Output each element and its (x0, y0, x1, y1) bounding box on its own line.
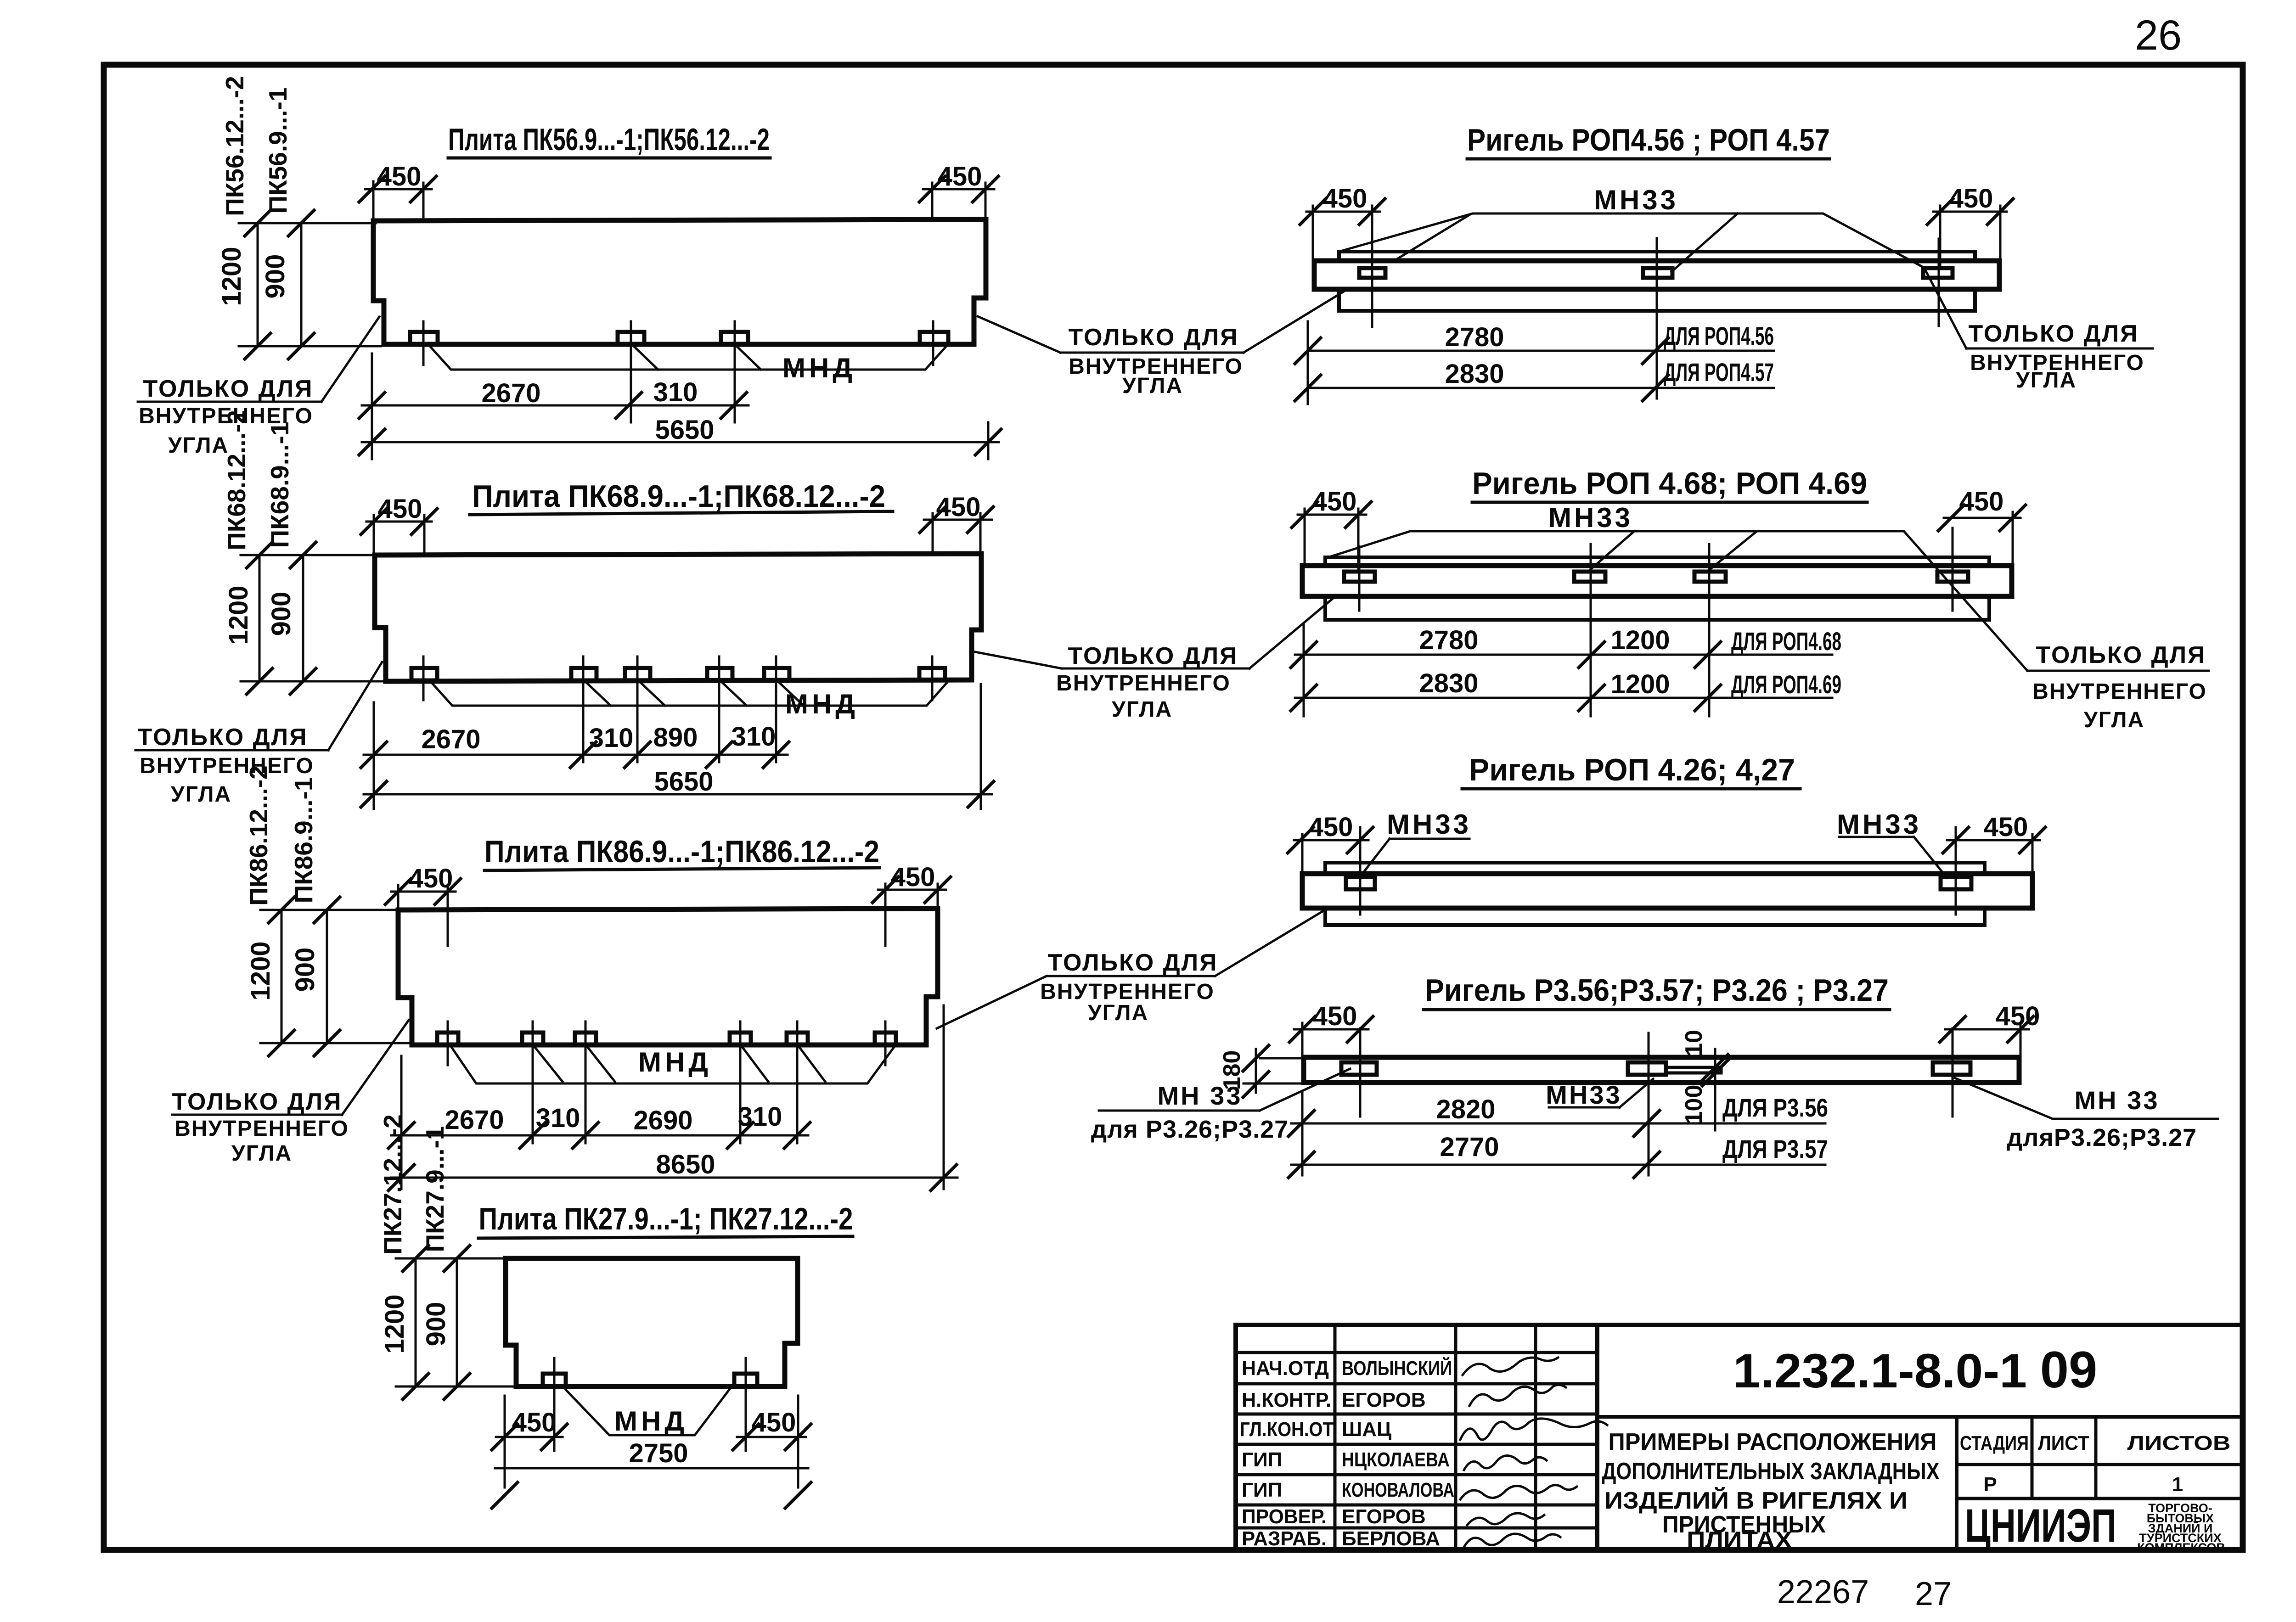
beam 2 МН33 plate 1 (1344, 572, 1375, 582)
svg-text:900: 900 (266, 592, 296, 636)
svg-text:ДЛЯ РОП4.56: ДЛЯ РОП4.56 (1664, 321, 1774, 350)
beam 2 МН33 label (1548, 502, 1633, 533)
title beam 3 underline (1462, 787, 1800, 791)
title plate 3 underline (484, 868, 879, 870)
beam 1 left 450 dim (1306, 211, 1380, 213)
plate 3 МНД embed rect 6 (875, 1033, 896, 1045)
plate 1 profile (373, 219, 986, 344)
designation 1.232.1-8.0-1 09 (1733, 1341, 2097, 1398)
plate 1 МНД leader (430, 347, 946, 370)
title plate 2 (472, 479, 885, 514)
plate 1 left 450 dim (365, 188, 432, 191)
title block name labels (1342, 1356, 1454, 1550)
title block vertical lines (1334, 1325, 1337, 1550)
svg-text:5650: 5650 (655, 415, 714, 445)
plate 2 right 450 dim (924, 519, 992, 521)
svg-text:1200: 1200 (224, 585, 253, 645)
svg-text:ГИП: ГИП (1242, 1448, 1282, 1471)
plate 4 axis lines (553, 1358, 556, 1451)
plate 1 rotated labels (217, 76, 292, 306)
svg-text:Ригель РОП4.56 ; РОП 4.57: Ригель РОП4.56 ; РОП 4.57 (1467, 123, 1830, 157)
svg-text:450: 450 (1949, 184, 1993, 213)
svg-text:МН33: МН33 (1548, 502, 1633, 533)
plate 3 МНД embed rect 4 (730, 1033, 751, 1045)
svg-text:УГЛА: УГЛА (171, 782, 231, 807)
beam 2 МН33 plate 4 (1937, 572, 1968, 582)
beam 4 left 450 dim (1294, 1028, 1368, 1031)
svg-text:МН33: МН33 (1387, 809, 1471, 840)
plate 3 МНД embed rect 1 (437, 1033, 458, 1045)
title block outer (1236, 1325, 2243, 1550)
title plate 4 (479, 1201, 853, 1236)
beam 2 dim row 2780/1200 (1295, 654, 1832, 656)
plate 2 МНД embed rect 4 (707, 668, 732, 680)
svg-text:Плита ПК86.9...-1;ПК86.12...-2: Плита ПК86.9...-1;ПК86.12...-2 (484, 834, 879, 869)
title beam 1 underline (1467, 157, 1829, 161)
svg-text:450: 450 (1312, 487, 1357, 516)
central note 2 Только для внутреннего угла (1056, 643, 1238, 722)
svg-text:ДОПОЛНИТЕЛЬНЫХ ЗАКЛАДНЫХ: ДОПОЛНИТЕЛЬНЫХ ЗАКЛАДНЫХ (1602, 1458, 1940, 1485)
svg-text:ГИП: ГИП (1242, 1479, 1282, 1501)
plate 1 dim row 2670/310 (362, 404, 748, 407)
svg-text:10: 10 (1681, 1030, 1707, 1056)
beam 2 main bar (1302, 566, 2012, 596)
svg-text:Ригель РОП 4.26; 4,27: Ригель РОП 4.26; 4,27 (1469, 752, 1795, 787)
svg-text:310: 310 (732, 722, 776, 752)
beam 1 dim row 2780 (1308, 350, 1774, 352)
svg-text:ЛИСТОВ: ЛИСТОВ (2127, 1432, 2231, 1454)
plate 3 dim row 8650 (391, 1177, 957, 1179)
leader to beam 1 left plate (1244, 215, 1469, 353)
title plate 1 (448, 122, 770, 157)
beam 4 МН33 middle label (1546, 1080, 1621, 1109)
title beam 1 (1467, 123, 1830, 157)
svg-text:ЕГОРОВ: ЕГОРОВ (1342, 1389, 1426, 1411)
svg-text:ЛИСТ: ЛИСТ (2038, 1432, 2089, 1454)
svg-text:ПК86.9...-1: ПК86.9...-1 (289, 777, 318, 904)
leader to plate 3 right notch (937, 976, 1047, 1028)
СТАДИЯ ЛИСТ ЛИСТОВ table (1960, 1432, 2231, 1496)
svg-text:КОМПЛЕКСОВ: КОМПЛЕКСОВ (2137, 1541, 2225, 1555)
beam 1 axis lines (1371, 239, 1373, 327)
beam 4 axis lines (1359, 1028, 1362, 1117)
beam 3 МН33 plate left (1346, 877, 1375, 889)
beam 3 МН33 plate right (1941, 877, 1971, 889)
svg-text:НАЧ.ОТД: НАЧ.ОТД (1242, 1357, 1329, 1380)
plate 4 profile (506, 1258, 798, 1386)
title beam 2 underline (1472, 501, 1867, 504)
plate 3 left note Только для внутреннего угла (172, 1089, 349, 1166)
beam 2 axis lines (1358, 546, 1361, 611)
title plate 4 underline (478, 1236, 853, 1238)
beam 3 right 450 dim (1947, 839, 2040, 842)
svg-text:ПК27.12...-2: ПК27.12...-2 (378, 1114, 407, 1254)
svg-text:Плита ПК56.9...-1;ПК56.12...-2: Плита ПК56.9...-1;ПК56.12...-2 (448, 122, 770, 157)
plate 2 profile (375, 554, 981, 681)
svg-text:УГЛА: УГЛА (2084, 708, 2144, 732)
svg-text:2780: 2780 (1445, 322, 1504, 352)
plate 1 МНД label (782, 353, 856, 383)
beam 4 left для Р3.26;Р3.27 (1091, 1116, 1289, 1143)
svg-text:900: 900 (421, 1302, 451, 1347)
beam 1 МН33 leader tent (1339, 213, 1966, 348)
svg-text:ВНУТРЕННЕГО: ВНУТРЕННЕГО (2032, 679, 2207, 704)
svg-text:100: 100 (1681, 1085, 1707, 1125)
institute subtitle (2137, 1501, 2225, 1555)
svg-text:1200: 1200 (1610, 625, 1670, 655)
svg-text:1.232.1-8.0-1: 1.232.1-8.0-1 (1733, 1344, 2027, 1398)
beam 3 left 450 dim (1294, 839, 1368, 842)
svg-text:ПК56.12...-2: ПК56.12...-2 (220, 76, 249, 216)
plate 1 МНД embed rect 1 (410, 332, 438, 344)
plate 3 МНД embed rect 2 (522, 1033, 543, 1045)
project description text (1602, 1429, 1940, 1554)
plate 1 right 450 dim (923, 188, 994, 191)
svg-text:Ригель РОП 4.68; РОП 4.69: Ригель РОП 4.68; РОП 4.69 (1472, 466, 1867, 501)
plate 4 МНД embed rect 1 (543, 1374, 566, 1386)
beam 2 dim row 2830/1200 (1295, 697, 1832, 699)
svg-text:2830: 2830 (1445, 359, 1504, 389)
svg-text:450: 450 (936, 492, 981, 522)
beam 3 МН33 left label (1387, 809, 1471, 840)
beam 1 МН33 plate middle (1643, 268, 1672, 278)
svg-text:ТОЛЬКО ДЛЯ: ТОЛЬКО ДЛЯ (143, 376, 313, 402)
svg-text:ТОЛЬКО ДЛЯ: ТОЛЬКО ДЛЯ (2036, 642, 2206, 668)
beam 4 МН33 plate left (1341, 1062, 1377, 1075)
title plate 3 (484, 834, 879, 869)
svg-text:2670: 2670 (445, 1105, 504, 1135)
beam 4 main bar (1304, 1057, 2019, 1083)
svg-text:890: 890 (653, 723, 698, 752)
svg-text:26: 26 (2135, 12, 2182, 59)
beam 1 МН33 plate left (1359, 268, 1385, 278)
plate 3 МНД leader (452, 1048, 894, 1083)
svg-text:УГЛА: УГЛА (231, 1141, 292, 1166)
svg-text:450: 450 (752, 1408, 796, 1437)
svg-text:1200: 1200 (217, 247, 247, 306)
svg-text:ДЛЯ РОП4.68: ДЛЯ РОП4.68 (1731, 627, 1841, 656)
beam 3 МН33 right label (1837, 809, 1921, 840)
svg-text:МН 33: МН 33 (1158, 1081, 1243, 1110)
svg-text:Плита ПК68.9...-1;ПК68.12...-2: Плита ПК68.9...-1;ПК68.12...-2 (472, 479, 885, 514)
plate 2 left note Только для внутреннего угла (137, 724, 314, 807)
svg-text:для Р3.26;Р3.27: для Р3.26;Р3.27 (1091, 1116, 1289, 1143)
svg-text:Ригель Р3.56;Р3.57; Р3.26 ; Р3: Ригель Р3.56;Р3.57; Р3.26 ; Р3.27 (1425, 973, 1889, 1008)
plate 4 rotated labels (378, 1114, 451, 1353)
beam 2 МН33 plate 3 (1694, 572, 1726, 582)
svg-text:310: 310 (738, 1102, 782, 1132)
title beam 3 (1469, 752, 1795, 787)
svg-text:1200: 1200 (1610, 669, 1670, 699)
svg-text:УГЛА: УГЛА (168, 433, 229, 458)
plate 2 rotated labels (222, 410, 296, 645)
svg-text:ВНУТРЕННЕГО: ВНУТРЕННЕГО (140, 754, 314, 778)
plate 1 МНД embed rect 2 (618, 332, 644, 344)
beam 4 thin strip 10x100 (1666, 1067, 1721, 1073)
beam 4 180 height dim (1255, 1049, 1257, 1093)
beam 1 slab behind (1339, 252, 1975, 311)
svg-text:1200: 1200 (246, 941, 276, 1000)
beam 4 right ДЛЯР3.26;Р3.27 (2007, 1124, 2197, 1151)
svg-text:1200: 1200 (380, 1294, 410, 1353)
plate 3 vertical dim columns (281, 910, 283, 1043)
svg-text:ПК56.9...-1: ПК56.9...-1 (264, 88, 292, 214)
plate 3 МНД label (638, 1047, 712, 1078)
svg-text:ПК68.12...-2: ПК68.12...-2 (222, 410, 251, 550)
beam 1 right 450 dim (1933, 211, 2007, 213)
svg-text:450: 450 (378, 494, 422, 524)
svg-text:МН33: МН33 (1546, 1080, 1621, 1109)
svg-text:ТОЛЬКО ДЛЯ: ТОЛЬКО ДЛЯ (1068, 324, 1238, 351)
plate 2 left 450 dim (366, 521, 432, 523)
svg-text:1: 1 (2172, 1473, 2183, 1496)
svg-text:2670: 2670 (421, 724, 480, 754)
svg-text:2690: 2690 (633, 1106, 692, 1135)
plate 2 axis lines (422, 657, 425, 700)
svg-text:450: 450 (377, 162, 422, 191)
svg-text:ТОЛЬКО ДЛЯ: ТОЛЬКО ДЛЯ (172, 1089, 342, 1115)
svg-text:РАЗРАБ.: РАЗРАБ. (1242, 1527, 1327, 1550)
title block signatures (1460, 1358, 1607, 1547)
beam 4 МН33 plate middle (1628, 1062, 1666, 1075)
svg-text:ПРИМЕРЫ РАСПОЛОЖЕНИЯ: ПРИМЕРЫ РАСПОЛОЖЕНИЯ (1609, 1429, 1937, 1455)
svg-text:2750: 2750 (629, 1438, 688, 1468)
plate 3 profile (398, 909, 938, 1045)
beam 2 right note Только для внутреннего угла (2032, 642, 2207, 732)
plate 4 МНД embed rect 2 (734, 1374, 757, 1386)
svg-text:НЦКОЛАЕВА: НЦКОЛАЕВА (1342, 1448, 1450, 1471)
beam 2 МН33 plate 2 (1574, 572, 1605, 582)
title block horizontal lines (1236, 1351, 1597, 1354)
svg-text:900: 900 (290, 948, 320, 992)
svg-text:Н.КОНТР.: Н.КОНТР. (1242, 1389, 1331, 1411)
svg-text:Р: Р (1983, 1473, 1997, 1496)
plate 2 МНД label (785, 689, 859, 719)
plate 1 vertical dim columns (257, 223, 259, 346)
svg-text:450: 450 (1313, 1001, 1357, 1031)
svg-text:5650: 5650 (654, 767, 713, 797)
svg-text:ТОЛЬКО ДЛЯ: ТОЛЬКО ДЛЯ (137, 724, 308, 751)
plate 4 vertical dim columns (415, 1258, 417, 1386)
plate 1 МНД embed rect 3 (721, 332, 748, 344)
svg-text:ДЛЯ Р3.56: ДЛЯ Р3.56 (1722, 1093, 1828, 1122)
svg-text:ПК68.9...-1: ПК68.9...-1 (265, 422, 294, 548)
leader to beam 2 left plate (1249, 579, 1356, 668)
svg-text:БЕРЛОВА: БЕРЛОВА (1342, 1527, 1440, 1550)
beam 4 right 450 dim (1945, 1028, 2029, 1031)
beam 3 slab behind (1325, 863, 1985, 925)
svg-text:ВНУТРЕННЕГО: ВНУТРЕННЕГО (1056, 671, 1231, 696)
beam 2 МН33 leader tent (1325, 531, 2027, 671)
central note 1 Только для внутреннего угла (1068, 324, 1243, 398)
beam 4 dim row 2820 (1291, 1122, 1825, 1125)
svg-text:ГЛ.КОН.ОТ: ГЛ.КОН.ОТ (1240, 1418, 1334, 1441)
svg-text:ПЛИТАХ: ПЛИТАХ (1687, 1527, 1792, 1554)
svg-text:ИЗДЕЛИЙ В РИГЕЛЯХ И: ИЗДЕЛИЙ В РИГЕЛЯХ И (1604, 1487, 1908, 1514)
beam 4 МН33 plate right (1933, 1062, 1970, 1075)
svg-text:450: 450 (1309, 812, 1353, 842)
plate 3 МНД embed rect 3 (575, 1033, 596, 1045)
svg-text:ВОЛЫНСКИЙ: ВОЛЫНСКИЙ (1342, 1356, 1452, 1380)
svg-text:МНД: МНД (638, 1047, 712, 1078)
svg-text:450: 450 (409, 864, 453, 893)
plate 2 МНД embed rect 1 (411, 668, 437, 680)
leader to beam 3 left plate (1215, 891, 1357, 976)
central note 3 Только для внутреннего угла (1040, 949, 1218, 1025)
beam 1 МН33 plate right (1923, 268, 1953, 278)
beam 2 left 450 dim (1298, 514, 1366, 516)
svg-text:ПРОВЕР.: ПРОВЕР. (1242, 1505, 1327, 1528)
svg-text:450: 450 (1996, 1001, 2040, 1031)
svg-text:2830: 2830 (1419, 668, 1478, 698)
title beam 2 (1472, 466, 1867, 501)
svg-text:450: 450 (938, 162, 982, 191)
plate 4 left 450 dim (496, 1436, 563, 1438)
svg-text:2670: 2670 (481, 378, 540, 408)
beam 4 МН33 left label (1158, 1081, 1243, 1110)
plate 3 dim row 2670/310/2690/310 (391, 1134, 808, 1137)
svg-text:ВНУТРЕННЕГО: ВНУТРЕННЕГО (174, 1117, 349, 1141)
plate 1 axis lines (422, 321, 425, 365)
svg-text:УГЛА: УГЛА (1088, 1001, 1148, 1025)
svg-text:27: 27 (1915, 1576, 1952, 1612)
beam 2 right 450 dim (1944, 517, 2020, 519)
plate 1 dim row 5650 (362, 441, 999, 443)
beam 1 dim row 2830 (1308, 387, 1774, 389)
plate 4 МНД leader (566, 1390, 729, 1435)
svg-text:2780: 2780 (1419, 625, 1478, 655)
beam 4 МН33 right label (2075, 1086, 2160, 1115)
plate 2 МНД embed rect 5 (764, 668, 789, 680)
svg-text:МН33: МН33 (1594, 185, 1678, 215)
title block role labels (1240, 1357, 1334, 1550)
svg-text:ТОЛЬКО ДЛЯ: ТОЛЬКО ДЛЯ (1068, 643, 1238, 669)
title beam 4 underline (1424, 1008, 1890, 1011)
plate 3 left 450 dim (391, 891, 456, 893)
beam 4 dim row 2770 (1291, 1164, 1825, 1166)
plate 3 right 450 dim (878, 889, 946, 891)
svg-text:22267: 22267 (1777, 1574, 1869, 1611)
svg-text:УГЛА: УГЛА (1112, 697, 1172, 722)
title plate 2 underline (470, 511, 893, 515)
plate 2 МНД embed rect 6 (919, 668, 945, 680)
svg-text:МНД: МНД (614, 1406, 688, 1437)
svg-text:КОНОВАЛОВА: КОНОВАЛОВА (1342, 1479, 1454, 1501)
svg-text:ДЛЯ Р3.57: ДЛЯ Р3.57 (1722, 1134, 1828, 1163)
svg-text:ТОЛЬКО ДЛЯ: ТОЛЬКО ДЛЯ (1047, 949, 1218, 976)
svg-text:ЦНИИЭП: ЦНИИЭП (1965, 1499, 2116, 1552)
svg-text:ПК86.12...-2: ПК86.12...-2 (244, 765, 273, 905)
beam 1 main bar (1314, 261, 1999, 289)
plate 4 МНД label (614, 1406, 688, 1437)
plate 2 dim row 2670/310/890/310 (364, 754, 788, 756)
svg-text:ТОЛЬКО ДЛЯ: ТОЛЬКО ДЛЯ (1968, 320, 2138, 347)
beam 3 axis lines (1359, 827, 1362, 915)
svg-text:8650: 8650 (656, 1150, 715, 1179)
svg-text:310: 310 (589, 723, 634, 753)
svg-text:УГЛА: УГЛА (2016, 368, 2077, 393)
plate 3 rotated labels (244, 765, 320, 1000)
title plate 1 underline (448, 157, 770, 160)
svg-text:дляР3.26;Р3.27: дляР3.26;Р3.27 (2007, 1124, 2197, 1151)
beam 1 right note Только для внутреннего угла (1968, 320, 2144, 393)
plate 4 dim row 2750 (495, 1467, 808, 1470)
svg-text:09: 09 (2040, 1341, 2098, 1398)
leader to plate 1 right notch (978, 316, 1060, 353)
plate 1 left note Только для внутреннего угла (139, 376, 313, 458)
svg-text:МН33: МН33 (1837, 809, 1921, 840)
svg-text:ПК27.9...-1: ПК27.9...-1 (421, 1126, 449, 1252)
title beam 4 (1425, 973, 1889, 1008)
svg-text:310: 310 (653, 377, 698, 407)
svg-text:УГЛА: УГЛА (1122, 374, 1183, 398)
plate 1 МНД embed rect 4 (920, 332, 948, 344)
plate 2 МНД embed rect 3 (625, 668, 650, 680)
svg-text:ШАЦ: ШАЦ (1342, 1418, 1391, 1441)
svg-text:450: 450 (891, 862, 935, 892)
svg-text:МН 33: МН 33 (2075, 1086, 2160, 1115)
beam 1 МН33 label (1594, 185, 1678, 215)
plate 4 right 450 dim (737, 1436, 806, 1438)
svg-text:МНД: МНД (785, 689, 859, 719)
svg-text:2770: 2770 (1440, 1132, 1499, 1162)
svg-text:310: 310 (536, 1103, 580, 1133)
plate 2 vertical dim columns (259, 555, 261, 681)
svg-text:Плита ПК27.9...-1; ПК27.12...-: Плита ПК27.9...-1; ПК27.12...-2 (479, 1201, 853, 1236)
svg-text:ДЛЯ РОП4.57: ДЛЯ РОП4.57 (1664, 358, 1774, 387)
svg-text:МНД: МНД (782, 353, 856, 383)
ЦНИИЭП logo (1965, 1499, 2116, 1552)
plate 2 МНД leader (432, 683, 947, 706)
plate 2 dim row 5650 (364, 793, 992, 796)
svg-text:2820: 2820 (1436, 1094, 1495, 1124)
svg-text:ДЛЯ РОП4.69: ДЛЯ РОП4.69 (1731, 670, 1841, 699)
svg-text:СТАДИЯ: СТАДИЯ (1960, 1432, 2029, 1454)
svg-text:ЕГОРОВ: ЕГОРОВ (1342, 1505, 1426, 1528)
plate 3 МНД embed rect 5 (787, 1033, 808, 1045)
svg-text:900: 900 (260, 254, 290, 299)
svg-text:450: 450 (1323, 184, 1367, 213)
plate 2 МНД embed rect 2 (571, 668, 597, 680)
plate 3 axis lines (447, 1021, 449, 1065)
svg-text:450: 450 (512, 1408, 557, 1437)
svg-text:450: 450 (1959, 487, 2004, 516)
svg-text:450: 450 (1984, 812, 2028, 842)
leader to plate 2 right notch (975, 652, 1062, 668)
beam 2 slab behind (1325, 557, 1989, 620)
beam 4 10/100 dim (1714, 1049, 1716, 1130)
beam 3 main bar (1302, 874, 2032, 908)
